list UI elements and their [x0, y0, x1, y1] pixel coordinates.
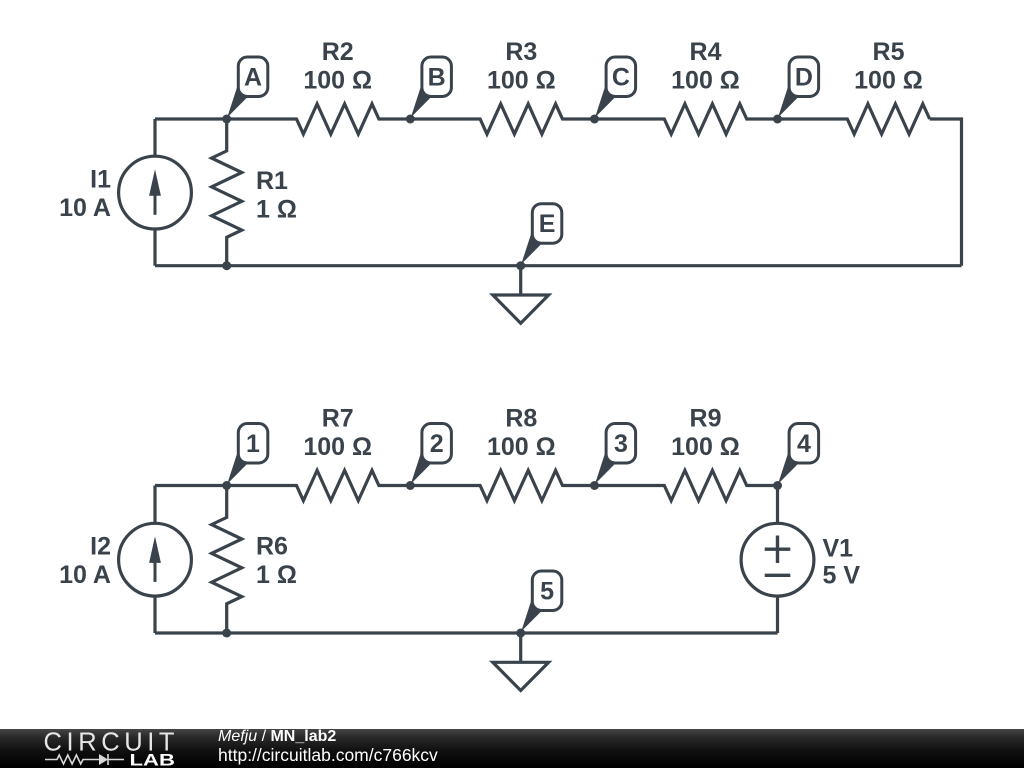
svg-text:100 Ω: 100 Ω — [854, 67, 923, 95]
resistor R1 (vertical) — [212, 119, 242, 266]
node A — [222, 57, 268, 124]
node 3 — [590, 424, 636, 491]
svg-text:R1: R1 — [256, 167, 288, 195]
svg-text:1: 1 — [246, 430, 260, 458]
svg-text:100 Ω: 100 Ω — [303, 433, 372, 461]
wire: bottom circuit left branch vertical — [153, 486, 156, 634]
resistor R4 (horizontal) — [595, 104, 778, 134]
svg-text:R9: R9 — [690, 405, 722, 433]
svg-text:R5: R5 — [873, 38, 905, 66]
svg-text:2: 2 — [430, 430, 444, 458]
current source I2 — [119, 523, 192, 596]
node D — [773, 57, 819, 124]
junction dot R6 bottom — [222, 629, 231, 638]
voltage source V1 — [741, 523, 814, 596]
svg-text:A: A — [244, 64, 262, 92]
node E — [516, 204, 562, 271]
resistor R2 (horizontal) — [227, 104, 411, 134]
svg-text:4: 4 — [797, 430, 811, 458]
svg-text:5: 5 — [540, 578, 554, 606]
footer title text — [218, 728, 336, 746]
footer url text — [218, 745, 438, 765]
svg-text:D: D — [795, 64, 813, 92]
wire: bottom circuit bottom horizontal — [155, 631, 778, 634]
ground — [493, 266, 549, 324]
svg-text:1 Ω: 1 Ω — [256, 196, 297, 224]
svg-text:E: E — [539, 210, 556, 238]
node 4 — [773, 424, 819, 491]
svg-text:10 A: 10 A — [59, 194, 111, 222]
svg-text:R8: R8 — [505, 405, 537, 433]
svg-text:I2: I2 — [90, 533, 111, 561]
ground — [493, 633, 549, 691]
resistor R7 (horizontal) — [227, 470, 411, 500]
wire: top circuit left branch vertical — [153, 119, 156, 266]
svg-text:5 V: 5 V — [823, 562, 861, 590]
node C — [590, 57, 636, 124]
resistor R6 (vertical) — [212, 486, 242, 634]
resistor R3 (horizontal) — [410, 104, 594, 134]
svg-text:R2: R2 — [322, 38, 354, 66]
node 1 — [222, 424, 268, 491]
resistor R8 (horizontal) — [410, 470, 594, 500]
node B — [406, 57, 452, 124]
svg-text:C: C — [612, 64, 630, 92]
svg-text:3: 3 — [614, 430, 628, 458]
node 5 — [516, 571, 562, 638]
svg-text:100 Ω: 100 Ω — [487, 433, 556, 461]
svg-text:100 Ω: 100 Ω — [671, 433, 740, 461]
resistor R9 (horizontal) — [595, 470, 778, 500]
wire: top circuit right vertical — [930, 119, 962, 266]
node 2 — [406, 424, 452, 491]
svg-text:R6: R6 — [256, 533, 288, 561]
wire: top circuit top-left segment — [155, 117, 227, 120]
svg-text:1 Ω: 1 Ω — [256, 561, 297, 589]
junction dot R1 bottom — [222, 261, 231, 270]
wire: bottom circuit top-left segment — [155, 484, 227, 487]
svg-text:R3: R3 — [505, 38, 537, 66]
wire: V1 stubs vertical — [776, 486, 779, 634]
svg-text:V1: V1 — [823, 535, 854, 563]
wire: top circuit bottom horizontal — [155, 264, 962, 267]
svg-text:100 Ω: 100 Ω — [303, 67, 372, 95]
resistor R5 (horizontal) — [778, 104, 930, 134]
svg-text:I1: I1 — [90, 166, 111, 194]
CircuitLab logo — [0, 729, 180, 768]
svg-text:R4: R4 — [690, 38, 722, 66]
svg-text:10 A: 10 A — [59, 561, 111, 589]
svg-text:R7: R7 — [322, 405, 354, 433]
svg-text:100 Ω: 100 Ω — [487, 67, 556, 95]
current source I1 — [119, 156, 192, 229]
svg-text:B: B — [428, 64, 446, 92]
svg-text:100 Ω: 100 Ω — [671, 67, 740, 95]
svg-text:LAB: LAB — [130, 751, 175, 768]
